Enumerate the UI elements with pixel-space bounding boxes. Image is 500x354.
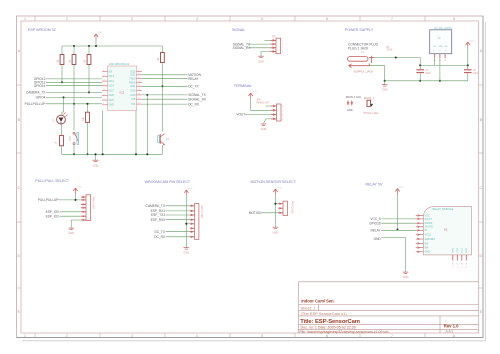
svg-text:100n: 100n [473,72,479,75]
wire JP9 pin4 to gnd [264,119,272,124]
title block outline [299,282,479,333]
IC1 ESP-WROOM-32 [108,62,137,110]
svg-text:VCC: VCC [399,187,404,189]
svg-text:IO19: IO19 [130,90,136,93]
svg-text:~AC: ~AC [444,45,449,48]
svg-text:7: 7 [391,17,393,21]
svg-text:VCC: VCC [188,188,193,190]
wire row GPIO13 [46,78,102,80]
svg-text:SIGNAL: SIGNAL [232,28,245,32]
push button S1 [69,132,79,144]
svg-text:IO12: IO12 [109,80,115,83]
wire mid rail [420,64,468,66]
wire VCC to JP9 [251,99,271,110]
svg-text:IC1: IC1 [120,90,125,94]
junction LED branch [62,96,64,98]
svg-text:Indoor Cam/ Sen.: Indoor Cam/ Sen. [301,299,334,304]
svg-text:File: /home/esp/eagle/esp32cam: File: /home/esp/eagle/esp32cam/esp-senso… [300,330,389,334]
svg-text:PULL/PULL SELECT: PULL/PULL SELECT [35,179,70,183]
wire bottom rail (POWER) [385,80,468,82]
svg-text:TERMINAL: TERMINAL [234,84,252,88]
wire row DC_TX [142,85,188,87]
wire row SIGNAL_TX [142,94,188,96]
VCC symbol (WROOM) [184,190,188,196]
svg-text:GND/SET: GND/SET [425,238,436,241]
junction rail-R3 [88,45,90,47]
junction jack node [395,56,397,58]
svg-text:MAIN 1 JAC: MAIN 1 JAC [346,95,361,99]
svg-text:GND: GND [261,127,267,131]
resistor R1 [60,55,64,65]
K1 bottom pins [453,255,467,261]
svg-text:GND: GND [403,275,409,279]
frame row labels right [479,49,482,314]
svg-text:GND: GND [68,231,74,235]
resistor R4 [161,53,165,63]
ground symbol (TERMINAL) [261,124,267,126]
svg-text:IN1/TX: IN1/TX [425,218,433,221]
svg-text:CAMERA_TX: CAMERA_TX [146,204,166,208]
IC1 right pin numbers [138,70,141,105]
wire VCC drop (WROOM) [185,195,187,247]
svg-text:IO18: IO18 [130,94,136,97]
svg-text:ESP_IO0: ESP_IO0 [46,210,60,214]
K1 bottom pin names [453,247,469,252]
wire gnd drop (POWER) [384,81,386,85]
svg-text:PULLPULLUP: PULLPULLUP [38,198,58,202]
svg-text:ESP WROOM 32: ESP WROOM 32 [28,28,56,32]
resistor R3 [87,55,91,65]
svg-text:PINHD-1X8: PINHD-1X8 [200,205,203,218]
wire node to mid rail [419,58,421,66]
resistor R6 [86,112,90,122]
wire VCC drop (RELAY) [397,194,399,230]
junction R6-row6 [86,103,88,105]
svg-text:VCC: VCC [469,41,474,43]
relay module K1 [423,207,471,255]
svg-text:DC_RX: DC_RX [188,102,200,106]
svg-text:8: 8 [453,17,455,21]
svg-text:2: 2 [66,17,68,21]
K1 left pins [418,215,420,253]
ground symbol (POWER) [382,85,388,87]
svg-text:Doc. no: 1 Date: 202: Doc. no: 1 Date: 2020-05-02 22:30 [301,326,356,330]
AC/DC converter U2 [430,26,452,54]
wire GND drop [95,154,97,160]
svg-text:7: 7 [391,334,393,338]
svg-text:GND: GND [347,108,353,112]
svg-text:GPIO4: GPIO4 [36,96,46,100]
U2 pins [435,54,445,59]
svg-text:IO4: IO4 [132,103,137,106]
svg-text:D: D [479,254,482,258]
wire R3 top stub [88,46,90,55]
junction R4-rowDC_TX [161,85,163,87]
svg-text:GND: GND [109,104,115,107]
svg-text:K1: K1 [444,228,448,232]
svg-text:WROOM/CAM PIN SELECT: WROOM/CAM PIN SELECT [145,180,191,184]
frame column ticks bottom [35,333,425,338]
junction S1-rail [73,153,75,155]
wire JP9 pin1 stub [266,105,272,107]
wire R2 bottom [73,65,75,104]
K1 left pin names [425,214,436,253]
svg-text:8: 8 [453,334,455,338]
svg-text:VCC: VCC [77,187,82,189]
wire right col [146,95,148,154]
wire ESP_RX0 [166,219,195,221]
svg-text:RELAY: RELAY [188,77,199,81]
svg-text:A 4/1: A 4/1 [446,329,454,333]
wire VCC drop (MOTION) [274,195,276,228]
junction C1-rail [419,80,421,82]
wire Q1 emitter [161,145,163,154]
wire relay row4 jog [381,238,405,272]
svg-text:IO21: IO21 [130,85,136,88]
wire row RELAY [142,78,188,80]
svg-text:DC_TX: DC_TX [155,230,166,234]
svg-text:ESP_RX0: ESP_RX0 [151,218,166,222]
svg-text:IO25: IO25 [109,99,115,102]
svg-text:5: 5 [261,334,263,338]
junction VCC-pin1 (MOTION) [274,203,276,205]
ground symbol (WROOM) [184,248,190,250]
wire row GPIO12 [46,81,102,83]
svg-text:PINHD-1X3: PINHD-1X3 [290,201,293,214]
junction rightcol-rail [146,153,148,155]
svg-text:2: 2 [66,334,68,338]
IC1 right pin names [129,71,136,107]
resistor R5 [60,135,64,145]
svg-text:NO2: NO2 [466,247,468,252]
wire LED to R5 [61,124,63,135]
junction rightcol-row4 [146,94,148,96]
svg-text:IO5: IO5 [132,98,137,101]
TITLE BLOCK [299,282,479,334]
svg-text:PINHD-1X4: PINHD-1X4 [256,101,269,104]
junction R1-row2 [61,81,63,83]
svg-text:Title: ESP-SensorCam: Title: ESP-SensorCam [300,319,360,325]
svg-text:ESP_IO2: ESP_IO2 [46,214,60,218]
wire VCC drop (POWER) [467,48,469,66]
VCC symbol (MOTION) [273,189,277,195]
svg-text:IN3: IN3 [425,242,429,245]
svg-text:Rev 1.0: Rev 1.0 [444,324,459,329]
svg-text:1: 1 [24,17,26,21]
wire PULLPULLUP (PULL) [58,199,81,201]
junction pinA-rail [102,153,104,155]
wire JP2 pin4 to gnd [261,52,271,57]
svg-text:IO14: IO14 [109,85,115,88]
ground symbol (MOTION) [273,227,279,229]
frame column labels top [24,17,455,21]
junction VCC-mid [467,64,469,66]
jack connector X1 [348,56,375,68]
pin header JP3 [190,204,203,240]
svg-text:D: D [17,254,20,258]
junction pinB-rail [135,153,137,155]
U2 pin labels [433,60,446,62]
wire IC bottom pin B [135,111,137,155]
junction GND-rail [94,153,96,155]
wire button branch [73,104,75,131]
wire ESP_TX1 [166,214,195,216]
wire row MOTION [142,74,188,76]
wire pin6 to gnd [71,220,81,228]
capacitor C1 [416,65,431,80]
wire R3 bottom [88,65,90,93]
frame row ticks left [17,85,22,288]
svg-text:VCC: VCC [277,188,282,190]
svg-text:GND: GND [374,237,382,241]
svg-text:DC_RX: DC_RX [154,235,166,239]
junction rail-VCC [95,45,97,47]
wire LED branch down [62,97,64,115]
wire row PULLPULLUP [46,103,103,105]
svg-text:CAMERA_TX: CAMERA_TX [26,91,46,95]
wire DC_TX (wroom) [166,231,195,233]
ground symbol (ESP block) [93,160,99,162]
VCC symbol (ESP block) [94,34,98,41]
svg-text:100u: 100u [425,72,431,75]
svg-text:GND: GND [273,230,279,234]
svg-text:(The ESP SensorCam v1): (The ESP SensorCam v1) [301,311,348,316]
svg-text:1: 1 [24,334,26,338]
svg-text:PLUG 1 JACK: PLUG 1 JACK [348,46,369,50]
svg-text:ESP_TX1: ESP_TX1 [151,213,165,217]
svg-text:GND: GND [258,59,264,63]
wire relay row3 [381,229,416,231]
svg-text:IO22: IO22 [130,74,136,77]
wire row GPIO14 [46,85,102,87]
svg-text:3: 3 [131,334,133,338]
wire GPIO0 [60,211,81,213]
junction R2-row6 [73,103,75,105]
svg-text:EN: EN [109,71,113,74]
frame row labels left [17,49,20,314]
svg-text:IN4: IN4 [425,247,429,250]
wire S1 to rail [73,145,75,155]
VCC symbol (PULL) [73,188,77,194]
pin header JP4 [278,201,293,216]
svg-text:PINHD-1X7: PINHD-1X7 [92,197,95,210]
wire R6 to rail [87,122,89,154]
svg-text:C: C [479,186,482,190]
pin header JP9 [271,104,284,121]
svg-text:+VO: +VO [433,46,438,48]
svg-text:AC: AC [438,37,441,40]
svg-text:VCC: VCC [252,91,257,93]
svg-text:3: 3 [131,17,133,21]
svg-text:TXD0: TXD0 [129,78,136,81]
wire R6 top [87,104,89,112]
IC1 left pin names [109,71,115,107]
wire R2 top stub [73,46,75,55]
svg-text:RELAY 5V: RELAY 5V [366,182,383,186]
capacitor C2 [464,65,479,80]
wire U2 pin1 drop [434,58,436,65]
svg-text:Sheet: 1: Sheet: 1 [301,305,317,310]
wire row DC_RX [142,103,188,105]
wire JP2 pin1 stub [265,39,271,41]
wire CAMERA_TX (wroom) [166,205,195,207]
svg-text:GND: GND [382,88,388,92]
varistor RV1 [367,100,371,106]
resistor R2 [72,55,76,65]
svg-text:CO1: CO1 [457,247,459,252]
wire IC bottom pin A [102,111,104,155]
svg-text:SS14: SS14 [387,49,394,52]
svg-text:IO26: IO26 [109,94,115,97]
svg-text:RXD0: RXD0 [129,81,136,84]
wire R4 bottom [161,63,163,132]
svg-text:IO13: IO13 [109,75,115,78]
wire SIGNAL_RX [249,47,271,49]
svg-text:JP2: JP2 [272,36,277,39]
wire ESP_RX1 [166,210,195,212]
wire jack sleeve down [370,66,385,81]
mains pins [348,101,352,106]
junction VCC tap [185,223,187,225]
svg-text:MOTION: MOTION [249,211,262,215]
junction VCC-row3 [396,228,398,230]
svg-text:GND: GND [93,164,99,168]
svg-text:GND: GND [438,46,443,48]
svg-text:6: 6 [326,17,328,21]
IC1 right pins [137,72,143,105]
junction rail-R2 [73,45,75,47]
VCC symbol (RELAY) [395,189,399,195]
svg-text:NC1: NC1 [462,247,464,252]
svg-text:IN2/RX: IN2/RX [425,222,433,225]
junction R6-rail [86,153,88,155]
pin header JP1 [81,195,95,221]
wire U2 pin2 drop to rail [439,58,441,81]
svg-text:SUPPLY_JACK: SUPPLY_JACK [354,69,374,73]
junction mid-c1 [419,64,421,66]
svg-text:IO27: IO27 [109,90,115,93]
svg-text:MOTION SENSOR SELECT: MOTION SENSOR SELECT [251,180,297,184]
svg-text:VCC: VCC [98,32,103,34]
wire MOTION row [262,212,283,214]
ground symbol (PULL) [68,228,74,230]
wire VCC tap row [186,223,194,225]
wire row GPIO4 [46,96,102,98]
svg-text:PULLPULLUP: PULLPULLUP [25,102,45,106]
frame column ticks top [35,16,425,21]
wire top rail [62,46,162,55]
ground symbol (SIGNAL) [258,56,264,58]
svg-text:4: 4 [196,17,198,21]
svg-text:C: C [17,186,20,190]
frame column labels bottom [24,334,455,338]
junction VCC-PULLPULLUP [74,199,76,201]
svg-text:ESP-WROOM-32: ESP-WROOM-32 [109,62,130,66]
svg-text:NO1: NO1 [453,247,455,252]
wire relay row1 [381,218,416,220]
LED D2 [57,113,68,125]
junction R3-row4 [88,91,90,93]
wire bottom rail [62,153,163,155]
IC1 left pin numbers [103,70,106,105]
junction U2gnd-rail [439,80,441,82]
svg-text:5: 5 [261,17,263,21]
svg-text:SIGNAL_RX: SIGNAL_RX [188,97,207,101]
svg-text:PUSH 1 JAC: PUSH 1 JAC [364,111,379,115]
wire row SIGNAL_RX [142,98,188,100]
wire SIGNAL_TX [249,43,271,45]
VCC symbol (TERMINAL) [249,93,253,99]
svg-text:GND: GND [425,251,431,254]
wire R5 to rail [61,146,63,155]
wire row CAMERA_TX [46,91,102,93]
svg-text:6: 6 [326,334,328,338]
IC1 left pins [102,72,108,105]
svg-text:RELAY_MODULE: RELAY_MODULE [433,207,454,211]
wire relay row2 [381,222,416,224]
wire pin1 row (MOTION) [275,203,283,205]
wire GPIO2 [60,215,81,217]
svg-text:VOUT: VOUT [236,113,245,117]
svg-text:RELAY: RELAY [370,229,381,233]
K1 bottom pin labels [452,264,468,269]
wire R1 bottom [61,65,63,83]
svg-text:RST: RST [69,136,72,141]
wire DC_RX (wroom) [166,236,195,238]
wire VOUT [245,114,271,116]
svg-text:GPIO16: GPIO16 [369,221,381,225]
svg-text:POWER SUPPLY: POWER SUPPLY [345,28,374,32]
wire VCC drop (PULL) [75,194,77,200]
VCC symbol (POWER) [466,42,470,48]
wire jack to node [374,57,421,59]
ground symbol (RELAY) [403,272,409,274]
svg-text:GND: GND [183,251,189,255]
wire VCC to rail [95,41,97,47]
svg-text:DC_TX: DC_TX [188,85,199,89]
junction sleeve-rail [384,80,386,82]
svg-text:VCC2: VCC2 [425,234,432,237]
svg-text:GPIO14: GPIO14 [34,84,46,88]
svg-text:IN: IN [425,229,428,232]
pin header JP2 [271,36,284,54]
svg-text:4: 4 [196,334,198,338]
frame row ticks right [479,85,484,288]
svg-text:MAIN_J: MAIN_J [364,96,375,100]
svg-text:AC_DC_CONV: AC_DC_CONV [434,26,452,30]
transistor Q1 [158,134,170,145]
